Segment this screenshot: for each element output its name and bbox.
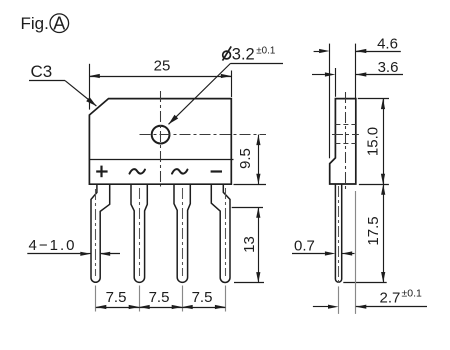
dimension phi 3.2 leader line with arrow to hole (169, 63, 284, 124)
svg-text:7.5: 7.5 (106, 289, 127, 306)
side view pin center line (338, 186, 340, 284)
svg-text:15.0: 15.0 (365, 127, 382, 156)
dimension 3.6 arrows and text (312, 59, 403, 77)
dimension 13 line with arrows (256, 207, 260, 282)
dimension 13 text (241, 236, 258, 253)
svg-text:0.7: 0.7 (294, 237, 315, 254)
side view hole hidden line upper (335, 124, 355, 126)
pin 4 center line (225, 188, 227, 276)
pin 4 (-) outline (211, 184, 230, 282)
dimension 2.7 arrows (313, 305, 427, 309)
dimension 2.7 +/-0.1 text (380, 288, 423, 307)
side view hole hidden line lower (335, 143, 355, 145)
shared extension line at body bottom (359, 184, 389, 186)
pin 3 center line (182, 188, 184, 276)
dimension 4-1.0 arrows (27, 252, 120, 256)
title text Fig. (21, 14, 49, 33)
front view horizontal center line (also 9.5 top extension) (140, 134, 267, 136)
dimension 4.6 extension lines (330, 44, 356, 159)
side view body outline with bottom standoff (330, 99, 356, 184)
dimension 9.5 line with arrows (256, 135, 260, 185)
polarity marking minus (211, 170, 222, 172)
dimension 25 line with arrows (89, 74, 231, 78)
label C3 text (31, 62, 53, 81)
dimension 17.5 bottom extension line (343, 282, 386, 284)
dimension 15.0 top extension line (358, 98, 389, 100)
svg-text:Fig.: Fig. (21, 14, 49, 33)
svg-text:7.5: 7.5 (149, 289, 170, 306)
dimension 4.6 arrows and text (314, 35, 401, 53)
svg-text:2.7: 2.7 (380, 290, 401, 307)
dimension 25 extension lines (90, 64, 232, 110)
svg-text:±0.1: ±0.1 (402, 288, 423, 300)
svg-text:C3: C3 (31, 62, 53, 81)
dimension 15.0 text (365, 127, 382, 156)
dimension 17.5 line with arrows (381, 184, 385, 282)
dimension 9.5 text (237, 148, 254, 169)
pin pitch extension lines below pin tips (96, 286, 226, 312)
front view vertical center line (160, 91, 162, 187)
dimension 25 text (154, 57, 171, 74)
front view mounting hole (152, 126, 170, 144)
svg-text:9.5: 9.5 (237, 148, 254, 169)
side view horizontal center line (332, 134, 359, 136)
dimension 7.5 third span (182, 289, 225, 309)
dimension 7.5 second span (139, 289, 182, 309)
pin 1 (+) outline (91, 184, 110, 282)
svg-text:3.6: 3.6 (378, 59, 399, 76)
side view pin outline (335, 184, 341, 282)
label C3 leader line with arrow to chamfer (29, 81, 96, 107)
svg-text:±0.1: ±0.1 (256, 46, 275, 57)
dimension 3.6 extension line (335, 68, 337, 97)
title circled letter A (50, 14, 69, 34)
polarity marking plus (96, 166, 107, 178)
svg-text:25: 25 (154, 57, 171, 74)
dimension 7.5 first span (96, 289, 139, 309)
polarity marking AC tilde 2 (172, 169, 188, 173)
dimension 13 extension lines (232, 208, 264, 283)
dimension 9.5 bottom extension line (234, 184, 267, 186)
dimension 4-1.0 text (29, 237, 77, 254)
svg-text:7.5: 7.5 (192, 289, 213, 306)
dimension 15.0 line with arrows (381, 99, 385, 185)
pin 2 (~) outline (131, 184, 147, 282)
svg-text:13: 13 (241, 236, 258, 253)
dimension 2.7 extension lines (339, 191, 356, 314)
pin 1 center line (95, 189, 97, 276)
front view body outline with chamfered corner (89, 99, 231, 185)
pin 3 (~) outline (174, 184, 190, 282)
pin 2 center line (139, 188, 141, 276)
dimension 0.7 arrows (292, 251, 355, 255)
svg-text:A: A (53, 14, 65, 34)
front view marking strip line (89, 159, 233, 161)
svg-text:4.6: 4.6 (377, 35, 398, 52)
dimension 0.7 text (294, 237, 315, 254)
dimension 17.5 text (365, 216, 382, 245)
side view body vertical center line (345, 92, 347, 190)
svg-text:17.5: 17.5 (365, 216, 382, 245)
svg-text:4−1.0: 4−1.0 (29, 237, 77, 254)
svg-text:3.2: 3.2 (232, 46, 255, 64)
polarity marking AC tilde 1 (130, 169, 146, 173)
dimension phi 3.2 +/-0.1 label (223, 46, 276, 64)
